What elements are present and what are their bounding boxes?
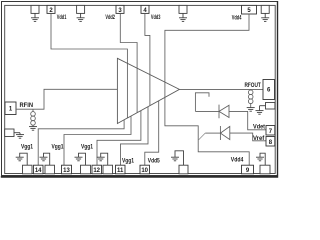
- pin 2: [47, 5, 55, 13]
- svg-text:RFOUT: RFOUT: [245, 82, 261, 89]
- pin 13: [62, 165, 72, 174]
- ground pad G-L (bottom right): [256, 153, 270, 174]
- coupled line (output coupler): [195, 93, 209, 112]
- svg-text:11: 11: [117, 168, 124, 174]
- ground (under L1): [29, 127, 37, 131]
- ground pad G-I (bottom): [75, 153, 91, 174]
- svg-text:Vdd5: Vdd5: [148, 157, 160, 164]
- svg-text:Vdd3: Vdd3: [151, 14, 161, 21]
- svg-text:Vref: Vref: [253, 135, 265, 142]
- wire pin3 Vdd2 feed: [120, 13, 137, 112]
- wire pin12 Vgg1 feed: [97, 111, 141, 166]
- ground pad G-E (right edge, below pin 6): [256, 103, 275, 115]
- pin 9: [242, 165, 254, 174]
- svg-text:RFIN: RFIN: [20, 102, 34, 109]
- diode D2 (reference): [220, 126, 229, 140]
- wire pin10 Vdd5 feed: [145, 101, 159, 165]
- inductor L1 (RFIN shunt): [31, 109, 36, 126]
- pin 14: [34, 165, 44, 174]
- wire coupler to diode D1: [195, 110, 219, 112]
- svg-text:Vdd2: Vdd2: [105, 14, 115, 21]
- wire pin11 Vgg1 feed: [121, 107, 149, 166]
- wire pin13 Vgg1 feed: [64, 116, 131, 165]
- ground pad G-C (top): [179, 5, 187, 21]
- wire pin4 Vdd3 feed: [145, 13, 150, 105]
- pin 12: [92, 165, 102, 174]
- svg-text:Vdet: Vdet: [253, 123, 265, 130]
- pin 11: [116, 165, 126, 174]
- ground pad G-J (bottom): [97, 153, 113, 174]
- pin 10: [140, 165, 150, 174]
- wire RFOUT output line: [179, 88, 263, 90]
- svg-text:Vdd1: Vdd1: [57, 14, 67, 21]
- svg-text:10: 10: [141, 168, 148, 174]
- wire RFIN input: [16, 89, 117, 109]
- svg-text:Vgg1: Vgg1: [52, 144, 64, 151]
- ground pad G-F (left edge): [5, 129, 24, 138]
- svg-text:Vgg1: Vgg1: [81, 144, 93, 151]
- ground pad G-K (bottom): [171, 151, 188, 174]
- svg-text:12: 12: [93, 168, 100, 174]
- pin 1 RFIN: [5, 102, 16, 115]
- wire into diode D2: [205, 132, 220, 134]
- wire D2 to pin 8: [230, 133, 266, 141]
- diagonal stub to D2: [198, 133, 205, 140]
- ground pad G-D (top right): [261, 5, 269, 21]
- wire pin2 Vdd1 feed: [51, 13, 127, 118]
- wire pin14 Vgg1 feed: [38, 120, 124, 165]
- diode D1 (detector): [219, 105, 229, 119]
- pin 7: [266, 126, 275, 136]
- op-amp U1 (amplifier triangle): [117, 58, 179, 123]
- svg-text:Vgg1: Vgg1: [21, 144, 33, 151]
- svg-text:Vdd4: Vdd4: [232, 15, 242, 22]
- svg-text:14: 14: [35, 168, 42, 174]
- ground pad G-G (bottom): [16, 153, 32, 174]
- inner schematic border: [5, 5, 276, 173]
- ground pad G-B (top): [77, 5, 85, 21]
- ground pad G-A (top, left): [31, 5, 39, 21]
- wire Vdd4 net: pin5 to pin9: [165, 14, 249, 165]
- ground (under L2): [247, 108, 255, 112]
- pin 6: [263, 80, 275, 100]
- wire D1 to pin 7: [229, 111, 266, 129]
- ground pad G-H (bottom): [40, 153, 55, 174]
- inductor L2 (RFOUT choke): [248, 89, 253, 107]
- svg-text:Vdd4: Vdd4: [231, 157, 244, 164]
- pin 3: [116, 5, 124, 13]
- pin 8: [266, 137, 275, 147]
- pin 5: [242, 5, 257, 14]
- outer package border: [1, 1, 278, 177]
- svg-text:Vgg1: Vgg1: [122, 157, 134, 164]
- pin 4: [141, 5, 149, 13]
- svg-text:13: 13: [63, 168, 70, 174]
